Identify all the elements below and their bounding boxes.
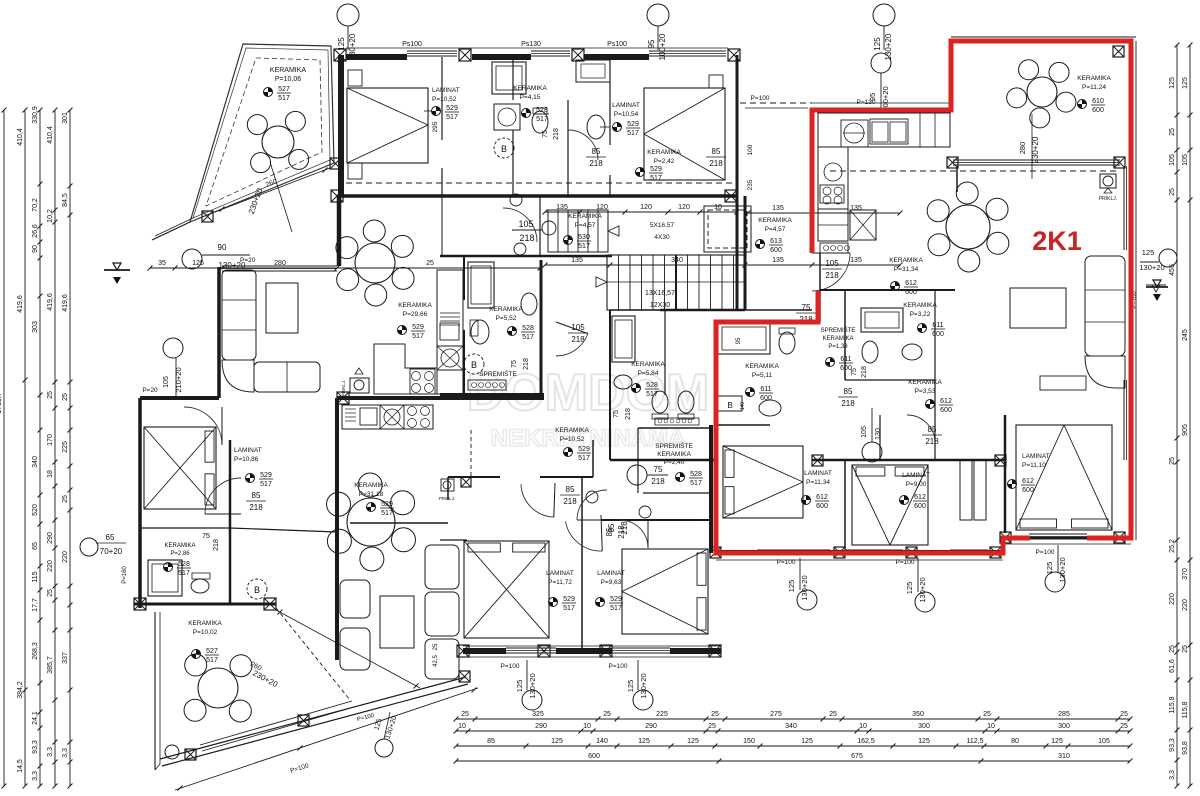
svg-text:135: 135 [850,205,862,212]
svg-text:125: 125 [551,738,563,745]
wall 511 bottom [716,424,770,426]
terrace bl corner [155,764,160,770]
svg-text:611: 611 [840,356,851,363]
wall stub 2k1 living [956,166,958,192]
svg-text:218: 218 [709,159,723,168]
coffee table center apt [380,596,414,648]
svg-text:75: 75 [511,360,518,368]
svg-text:120: 120 [678,204,690,211]
wall bath 584 right [664,310,666,395]
svg-text:KERAMIKA: KERAMIKA [270,67,307,74]
svg-text:275: 275 [770,711,782,718]
svg-text:2K1: 2K1 [1032,226,1082,256]
svg-text:LAMINAT: LAMINAT [1022,453,1050,460]
svg-text:P=5,52: P=5,52 [496,315,517,322]
svg-text:95: 95 [736,337,742,344]
svg-text:P=4,57: P=4,57 [575,222,596,229]
wall right of top-left bedroom [441,57,443,140]
prikljucak bedroom wall [441,479,454,491]
svg-text:P=5,84: P=5,84 [638,370,659,377]
svg-text:LAMINAT: LAMINAT [597,570,625,577]
sink bath 552 [521,293,537,315]
svg-text:25: 25 [461,711,469,718]
svg-text:P=100: P=100 [1036,549,1055,556]
svg-text:25: 25 [983,711,991,718]
svg-text:170: 170 [47,434,54,446]
svg-text:P=3,53: P=3,53 [915,388,936,395]
svg-text:218: 218 [519,233,534,243]
fixture strip 584 [655,418,699,425]
svg-text:90: 90 [218,243,227,252]
svg-text:18: 18 [47,470,54,478]
svg-text:520: 520 [32,504,39,516]
svg-text:75: 75 [802,303,811,312]
svg-text:135: 135 [571,257,583,264]
svg-text:135: 135 [772,257,784,264]
svg-text:611: 611 [760,386,771,393]
wall hall left [539,196,541,256]
fraction 2k1 322 [918,324,927,333]
svg-text:125: 125 [873,37,882,51]
bath 2k1 tub 322 [861,308,903,332]
svg-text:P=11,10: P=11,10 [1022,462,1046,469]
svg-text:25: 25 [708,723,716,730]
svg-text:130+20: 130+20 [1058,557,1067,582]
window parapet left living [222,265,337,267]
dim row 2k1 entry [748,212,900,214]
svg-text:KERAMIKA: KERAMIKA [657,451,691,458]
svg-text:285: 285 [1058,711,1070,718]
kitchen lower row [342,405,433,429]
wall divider bottom beds [581,477,583,651]
wall bath 584 top [610,309,665,311]
svg-text:410,4: 410,4 [17,128,24,146]
kitchen step counter left apt [374,344,437,394]
sofa left apartment [222,270,256,360]
svg-text:P=2,42: P=2,42 [654,158,675,165]
svg-text:385,7: 385,7 [47,656,54,674]
toilet 584 b [678,391,694,413]
svg-text:218: 218 [523,358,530,370]
terrace bl diag dim [276,610,420,688]
svg-text:P=5,11: P=5,11 [752,372,773,379]
svg-text:85: 85 [712,147,721,156]
sink 584 [614,375,632,389]
svg-text:517: 517 [578,243,590,250]
dimension row bottom 3 [456,745,1130,747]
svg-text:612: 612 [940,398,952,405]
hatch top-1 [334,49,346,61]
wall bottom main [463,648,506,654]
hatch tr corner [1113,46,1124,57]
svg-text:218: 218 [213,539,220,551]
svg-text:70,2: 70,2 [32,198,39,212]
bed bottom-right-center [622,549,708,634]
wall slant bottom [160,677,466,759]
svg-text:529: 529 [563,596,575,603]
svg-text:75: 75 [851,368,858,376]
svg-text:600: 600 [914,503,926,510]
hatch top-3 [572,49,584,61]
fraction corridor right [756,240,765,249]
dim marker 95 kitchen [871,53,891,73]
sink 2k1 322 [902,344,922,360]
svg-text:P=11,34: P=11,34 [806,479,830,486]
svg-text:130+20: 130+20 [800,575,809,600]
svg-text:529: 529 [650,166,662,173]
svg-text:600: 600 [940,407,952,414]
svg-text:218: 218 [925,437,939,446]
svg-text:125: 125 [192,260,204,267]
svg-text:P=20: P=20 [142,387,158,394]
hatch kitchen wall [337,392,349,404]
wall 2k1 bed divider2 [1004,415,1007,533]
svg-text:218: 218 [563,497,577,506]
svg-text:612: 612 [1022,478,1034,485]
bed top-mid [644,88,725,180]
hatch 2k1 b4 [990,547,1001,558]
svg-text:340: 340 [32,456,39,468]
window 2k1 bottom bay2 [845,549,903,551]
hatch bottom-1 [457,645,469,657]
outer face line right of 2k1 [1135,41,1137,540]
svg-text:125: 125 [1142,248,1155,257]
window 2k1 bottom bay1 [757,549,830,551]
wall mid bath top [512,57,514,100]
svg-text:25: 25 [47,391,54,399]
svg-text:218: 218 [617,525,626,539]
boiler B 552 [464,354,484,374]
svg-text:70+20: 70+20 [100,547,123,556]
dim marker 2k1 bot1 [797,590,817,610]
svg-text:115: 115 [32,571,39,582]
svg-text:10: 10 [987,723,995,730]
fraction spremiste 139 [826,358,835,367]
svg-text:517: 517 [412,333,424,340]
window slant [200,701,352,745]
coffee table left apartment [266,283,298,333]
svg-text:93,8: 93,8 [1182,741,1189,755]
svg-text:85: 85 [592,147,601,156]
bed top-left [347,88,428,163]
svg-text:517: 517 [522,334,534,341]
svg-text:419,6: 419,6 [62,294,69,312]
wall bedroom bl left [447,477,449,500]
svg-text:218: 218 [625,408,632,420]
svg-text:SPREMIŠTE: SPREMIŠTE [655,441,693,450]
terrace table [262,126,294,158]
svg-text:75: 75 [542,130,549,138]
svg-text:84,5: 84,5 [62,193,69,207]
svg-text:600: 600 [588,753,600,760]
dining table center apt [347,498,395,546]
wall band mid left [440,393,544,397]
svg-text:25: 25 [62,495,69,503]
svg-text:905: 905 [1182,424,1189,436]
svg-text:93,3: 93,3 [1169,738,1176,752]
svg-text:140: 140 [596,738,608,745]
svg-text:218: 218 [553,128,560,140]
door arc bed1 [521,484,554,517]
wall top outer thin [346,47,728,49]
svg-text:25: 25 [711,711,719,718]
kitchen 2k1 lower [818,209,848,241]
toilet 2k1 322 [862,341,878,363]
shower lower-left [148,560,182,596]
dim row left shoulder [150,267,540,269]
svg-text:B: B [501,144,507,154]
svg-text:65: 65 [106,533,115,542]
svg-text:LAMINAT: LAMINAT [234,447,262,454]
wall 2k1 bottom right [1005,537,1131,540]
hatch bottom-2 [538,645,550,657]
svg-text:B: B [727,401,732,410]
wall left of top bedroom [338,55,344,196]
fraction top-mid bedroom [613,123,622,132]
svg-text:85: 85 [252,491,261,500]
svg-text:290: 290 [535,723,547,730]
hatch 2k1 b1 [710,547,721,558]
wall 353 [879,415,881,460]
svg-text:85: 85 [605,527,614,536]
sofa 2k1 [1085,256,1125,356]
fraction bath 584 [632,384,641,393]
dimension row bottom 4 [456,760,1130,762]
fraction top-left bedroom [432,107,441,116]
svg-text:PRIKLJ.: PRIKLJ. [439,496,456,501]
svg-text:337: 337 [62,652,69,664]
svg-text:100: 100 [747,144,754,155]
window bottom bay2 [612,647,670,649]
svg-text:25: 25 [433,643,439,650]
label B boiler top bath [494,138,514,158]
svg-text:135: 135 [850,257,862,264]
svg-text:529: 529 [260,472,272,479]
svg-text:125: 125 [1051,738,1063,745]
stairs main flight [606,255,608,310]
toilet top bath [532,111,548,133]
wall bath552 left [463,256,465,300]
dimension slant bottom-left [175,688,478,790]
svg-text:135: 135 [772,205,784,212]
hatch slant-3 [185,749,196,760]
svg-text:P=4,15: P=4,15 [520,94,541,101]
svg-text:95: 95 [868,93,877,101]
svg-text:P=100: P=100 [751,95,770,102]
wall mid stair [675,255,677,310]
svg-text:25: 25 [62,393,69,401]
svg-text:13X16,57: 13X16,57 [645,290,675,297]
svg-text:42,5: 42,5 [433,655,439,667]
red outline part A [812,41,1131,538]
svg-text:3,3: 3,3 [62,748,69,758]
svg-text:75: 75 [202,533,210,540]
svg-text:LAMINAT: LAMINAT [432,87,460,94]
svg-text:P=31,34: P=31,34 [894,266,919,273]
wall left lower bottom [134,603,276,606]
svg-text:80: 80 [1011,738,1019,745]
svg-text:218: 218 [841,399,855,408]
svg-text:517: 517 [178,570,190,577]
svg-text:517: 517 [260,481,272,488]
terrace top-left outline [190,44,334,222]
svg-text:P=10,52: P=10,52 [432,96,457,103]
svg-text:105: 105 [518,219,533,229]
wall under terrace [337,196,342,266]
svg-text:115,8: 115,8 [1169,696,1176,713]
terrace bl inner diag [276,608,350,700]
fraction center living [367,503,376,512]
svg-text:105: 105 [1182,154,1189,166]
wall corridor mid stub [441,196,443,255]
svg-text:10: 10 [714,204,722,211]
svg-text:612: 612 [816,494,828,501]
svg-text:85: 85 [487,738,495,745]
wall below stairs [540,255,612,258]
svg-text:130+20: 130+20 [219,261,246,270]
svg-text:10: 10 [583,723,591,730]
section marker A left [104,269,130,271]
svg-text:220: 220 [1182,599,1189,611]
svg-text:528: 528 [178,561,190,568]
svg-text:218: 218 [651,477,665,486]
svg-text:218: 218 [249,503,263,512]
svg-text:SPREMIŠTE: SPREMIŠTE [821,327,856,334]
terrace fraction marker [264,88,273,97]
hatch 2k1 beds top1 [812,455,823,466]
wall kitchen mid band [337,396,544,400]
window 2k1 bottom bay3 [950,549,988,551]
svg-text:P=10,86: P=10,86 [234,456,259,463]
dim marker 2k1 br [1045,572,1065,592]
svg-text:25: 25 [1120,711,1128,718]
svg-text:529: 529 [578,446,590,453]
wall bedrooms bottom top [448,476,500,478]
hatch bottom bedroom row right [725,190,737,202]
armchairs center apt [340,580,370,618]
wall 2k1 bath bottom [845,379,935,381]
svg-text:245: 245 [1182,329,1189,341]
wall slant below terrace [152,222,190,240]
svg-text:65: 65 [32,542,39,550]
dim marker bottom2 [633,690,653,710]
svg-text:135: 135 [556,204,568,211]
section marker A right [1146,286,1168,288]
svg-text:P=160: P=160 [122,566,128,584]
svg-text:KERAMIKA: KERAMIKA [745,363,779,370]
fraction 1110 [1008,480,1017,489]
wall left of top-mid bedroom [609,57,611,145]
table top-right room [1027,77,1057,107]
svg-text:P=100: P=100 [609,663,628,670]
door arc hall low [620,520,648,548]
svg-text:25: 25 [1169,457,1176,465]
svg-text:P=2,86: P=2,86 [170,551,190,557]
dimension row bottom 1 [456,718,1130,720]
dimension marker top [337,4,359,26]
wall top seg3 [584,54,649,60]
small shelf 552 [468,380,506,390]
svg-text:125: 125 [918,738,930,745]
svg-text:Ps100: Ps100 [402,41,422,48]
svg-text:61,6: 61,6 [1169,659,1176,673]
svg-text:529: 529 [627,121,639,128]
outer face line 2k1 bottom [716,559,1003,561]
svg-text:517: 517 [690,480,702,487]
svg-text:150: 150 [743,738,755,745]
svg-text:140: 140 [740,402,746,411]
fraction tr room [1078,100,1087,109]
wall right bed1 room upper [592,440,594,477]
svg-text:350: 350 [912,711,924,718]
fraction wc [636,168,645,177]
svg-text:KERAMIKA: KERAMIKA [903,302,937,309]
terrace bl column circle [165,745,179,759]
svg-text:218: 218 [825,271,839,280]
svg-text:220: 220 [62,551,69,563]
wall lobby bottom [745,309,812,311]
dimension marker top [647,4,669,26]
svg-text:610: 610 [1092,98,1104,105]
svg-text:162,5: 162,5 [857,738,875,745]
svg-text:KERAMIKA: KERAMIKA [354,482,388,489]
elevator shaft [704,206,751,252]
balcony top right dashes [740,102,812,104]
kitchen tall column left apt [437,270,463,394]
svg-text:600: 600 [932,331,944,338]
toilet bath 552 [471,320,489,344]
wall bath 552 right [540,260,543,395]
outer face line kitchen top [812,102,950,104]
coffee table 2k1 [1010,288,1066,328]
svg-text:210+20: 210+20 [174,367,183,392]
bath 511 tub [718,323,770,354]
svg-text:218: 218 [861,366,868,378]
svg-text:Ps130: Ps130 [521,41,541,48]
svg-text:90: 90 [32,245,39,253]
toilet 511 [779,332,795,354]
prikljucak left apt [350,378,369,393]
svg-text:527: 527 [278,86,290,93]
svg-text:220: 220 [1169,593,1176,605]
svg-text:85: 85 [566,485,575,494]
dimension line right 2 [1189,45,1191,786]
fraction terrace bl [192,650,201,659]
wardrobe 2k1 [960,460,972,520]
bed 2k1 b [852,465,928,545]
fraction bath 552 [508,327,517,336]
red outline part B [716,291,1030,553]
svg-text:1735,7: 1735,7 [0,392,3,414]
fraction bed bl [549,598,558,607]
svg-text:301: 301 [62,112,69,124]
svg-text:125: 125 [626,680,635,693]
svg-text:25: 25 [426,260,434,267]
svg-text:225: 225 [62,441,69,453]
svg-text:KERAMIKA: KERAMIKA [631,361,665,368]
svg-text:225: 225 [656,711,668,718]
svg-text:325: 325 [532,711,544,718]
dashed balcony line top [346,182,735,184]
svg-text:35: 35 [158,260,166,267]
dashed line bedroom left [470,430,472,477]
wall bath lower-left top [140,527,230,529]
wall 2k1 bath top [820,289,955,291]
svg-text:517: 517 [446,114,458,121]
wall 2k1 beds top [812,459,1005,462]
svg-text:93,3: 93,3 [32,740,39,754]
hatch 2k1 b3 [906,547,917,558]
